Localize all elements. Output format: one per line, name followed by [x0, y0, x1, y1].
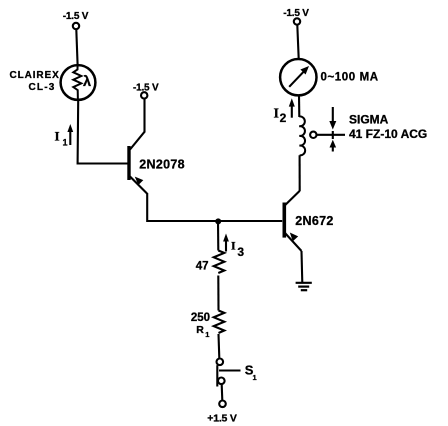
wire: R1 to switch — [217, 334, 220, 358]
svg-text:CLAIREX: CLAIREX — [10, 70, 60, 81]
current arrow I1 — [67, 124, 73, 145]
svg-text:3: 3 — [237, 245, 244, 259]
relay contact terminal — [310, 132, 316, 138]
svg-text:I: I — [274, 107, 279, 122]
transistor Q1 2N2078 — [129, 99, 147, 194]
svg-text:CL-3: CL-3 — [29, 82, 56, 93]
wire: Q1 emitter to junction row — [147, 193, 218, 221]
photocell V1 CLAIREX CL-3 — [61, 65, 96, 100]
svg-text:41 FZ-10 ACG: 41 FZ-10 ACG — [349, 127, 427, 141]
svg-text:I: I — [231, 239, 236, 253]
relay contact line — [317, 134, 345, 136]
terminal -1.5V left — [73, 23, 79, 29]
svg-text:SIGMA: SIGMA — [349, 113, 389, 127]
svg-text:1: 1 — [63, 137, 68, 147]
relay actuator up arrow — [330, 140, 337, 152]
svg-text:R: R — [196, 324, 204, 336]
svg-text:250: 250 — [191, 312, 210, 324]
wire: terminal to meter — [297, 25, 298, 59]
label CLAIREX CL-3 — [10, 70, 60, 93]
ground — [296, 283, 312, 290]
node junction dot — [215, 218, 221, 224]
wire: switch to +1.5V terminal — [221, 384, 224, 400]
svg-text:I: I — [55, 129, 60, 144]
svg-text:λ: λ — [83, 74, 91, 90]
svg-text:1: 1 — [253, 373, 257, 382]
relay contact tick — [332, 131, 334, 139]
transistor Q2 2N672 — [284, 203, 301, 252]
wire: meter to relay coil — [298, 95, 300, 117]
svg-text:-1.5 V: -1.5 V — [63, 11, 89, 22]
label I2 — [274, 107, 287, 125]
svg-text:1: 1 — [205, 330, 209, 339]
label S1 — [245, 363, 257, 383]
svg-text:2N2078: 2N2078 — [139, 158, 185, 172]
wire: Q2 emitter to ground — [300, 251, 303, 283]
svg-text:2N672: 2N672 — [295, 214, 333, 228]
relay actuator down arrow — [329, 107, 336, 130]
resistor 47 — [214, 251, 225, 273]
wire: corner to Q2 collector — [284, 191, 300, 206]
wire: junction to Q2 base — [218, 220, 282, 222]
label I3 — [231, 239, 244, 260]
switch S1 — [217, 359, 241, 387]
wire: photocell to Q1 base junction — [78, 100, 128, 164]
current arrow I2 — [289, 98, 295, 117]
wire: junction to resistor 47 — [217, 221, 219, 251]
resistor R1 250 — [214, 311, 225, 333]
terminal +1.5V — [219, 401, 226, 408]
svg-text:+1.5 V: +1.5 V — [207, 413, 237, 425]
svg-text:47: 47 — [196, 261, 209, 273]
label I1 — [55, 129, 68, 148]
relay coil K1 — [299, 116, 305, 155]
wire: -1.5V terminal to photocell — [76, 29, 77, 64]
terminal -1.5V Q1 — [141, 92, 147, 98]
label R1 — [196, 324, 209, 339]
meter M1 — [280, 59, 316, 95]
wire: 47 to R1 — [217, 276, 219, 311]
svg-text:2: 2 — [280, 111, 287, 125]
wire: coil to corner — [299, 155, 301, 191]
terminal -1.5V right — [294, 18, 300, 24]
current arrow I3 — [223, 234, 229, 252]
svg-text:0~100 MA: 0~100 MA — [321, 72, 379, 84]
